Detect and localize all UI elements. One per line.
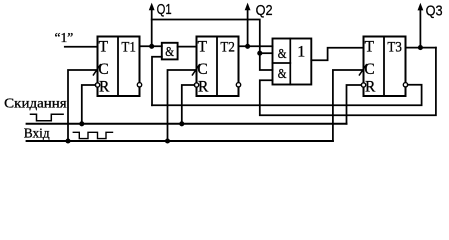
wire AND U1 output to T input of T2 <box>178 46 197 48</box>
wire Q-bar3 feedback from T3 to AND U1 <box>152 85 422 106</box>
wire Q3 arrow shaft <box>419 9 421 48</box>
arrowhead Q1 <box>149 3 155 11</box>
svg-text:Q2: Q2 <box>256 3 273 19</box>
svg-text:T1: T1 <box>121 40 135 56</box>
svg-text:Скидання: Скидання <box>4 96 66 111</box>
svg-text:&: & <box>165 45 174 60</box>
flip-flop T3 <box>364 37 406 97</box>
wire Q1 arrow shaft <box>151 9 153 47</box>
input clock waveform <box>73 132 112 138</box>
svg-text:&: & <box>278 47 287 62</box>
wire AND U1 input 2 from Q-bar3 feedback <box>152 57 162 106</box>
wire C input of T1 <box>68 70 98 141</box>
wire R input of T3 <box>347 85 362 124</box>
inversion bubble R of T2 <box>194 83 198 87</box>
node Q1 junction dot <box>149 44 154 49</box>
node dot R2 on reset rail <box>179 121 184 126</box>
wire input rail (Вхід) <box>27 140 333 142</box>
node dot C2 on input rail <box>165 138 170 143</box>
inversion bubble R of T1 <box>95 83 99 87</box>
svg-text:C: C <box>98 61 108 78</box>
wire Q2 arrow shaft <box>247 9 249 47</box>
wire R input of T2 <box>182 85 195 124</box>
svg-text:R: R <box>198 79 209 96</box>
AND-OR gate U2 <box>273 39 312 85</box>
node Q3 junction dot <box>418 45 423 50</box>
node dot R1 on reset rail <box>79 121 84 126</box>
wire reset rail (Скидання) <box>27 123 347 125</box>
svg-text:T: T <box>365 38 375 55</box>
node dot C1 on input rail <box>65 138 70 143</box>
wire R input of T1 <box>82 85 96 124</box>
svg-text:Q3: Q3 <box>426 4 443 20</box>
flip-flop T1 <box>98 37 140 97</box>
dynamic input slash T3 <box>359 65 366 75</box>
arrowhead Q2 <box>245 3 251 11</box>
wire "1" to T input of T1 <box>65 46 98 48</box>
flip-flop T2 <box>197 37 239 97</box>
node junction dot on Q1 branch at upper AND input <box>257 51 262 56</box>
wire Q1 branch into upper AND input of U2 <box>260 52 273 54</box>
AND gate U1 <box>162 43 178 60</box>
wire C input of T3 <box>333 70 364 141</box>
dynamic input slash T2 <box>192 65 199 75</box>
svg-text:C: C <box>364 61 374 78</box>
svg-text:T: T <box>99 38 109 55</box>
svg-text:C: C <box>197 61 207 78</box>
svg-text:T3: T3 <box>387 40 402 56</box>
inversion bubble Q-bar of T2 <box>236 83 240 87</box>
svg-text:Q1: Q1 <box>157 2 172 18</box>
svg-text:“1”: “1” <box>55 30 74 45</box>
svg-text:1: 1 <box>297 44 305 61</box>
wire C input of T2 <box>168 70 197 141</box>
wire Q2 output of T2 to AND-OR U2 <box>239 45 273 47</box>
inversion bubble Q-bar of T3 <box>403 83 407 87</box>
dynamic input slash T1 <box>93 65 100 75</box>
node Q2 junction dot <box>245 44 250 49</box>
svg-text:R: R <box>365 79 376 96</box>
wire Q1 output of T1 to AND U1 <box>140 45 162 47</box>
svg-text:T: T <box>198 38 208 55</box>
svg-text:&: & <box>278 67 287 82</box>
wire Q3 feedback to lower AND input of U2 <box>260 48 436 116</box>
svg-text:R: R <box>99 79 110 96</box>
wire AND-OR U2 output to T input of T3 <box>311 48 363 61</box>
svg-text:Вхід: Вхід <box>24 126 50 141</box>
inversion bubble Q-bar of T1 <box>137 83 141 87</box>
wire Q3 output of T3 <box>406 47 436 49</box>
inversion bubble R of T3 <box>361 83 365 87</box>
wire Q1 branch to AND-OR U2 <box>152 20 273 71</box>
arrowhead Q3 <box>418 3 424 11</box>
reset pulse waveform <box>31 114 64 121</box>
svg-text:T2: T2 <box>220 40 235 56</box>
